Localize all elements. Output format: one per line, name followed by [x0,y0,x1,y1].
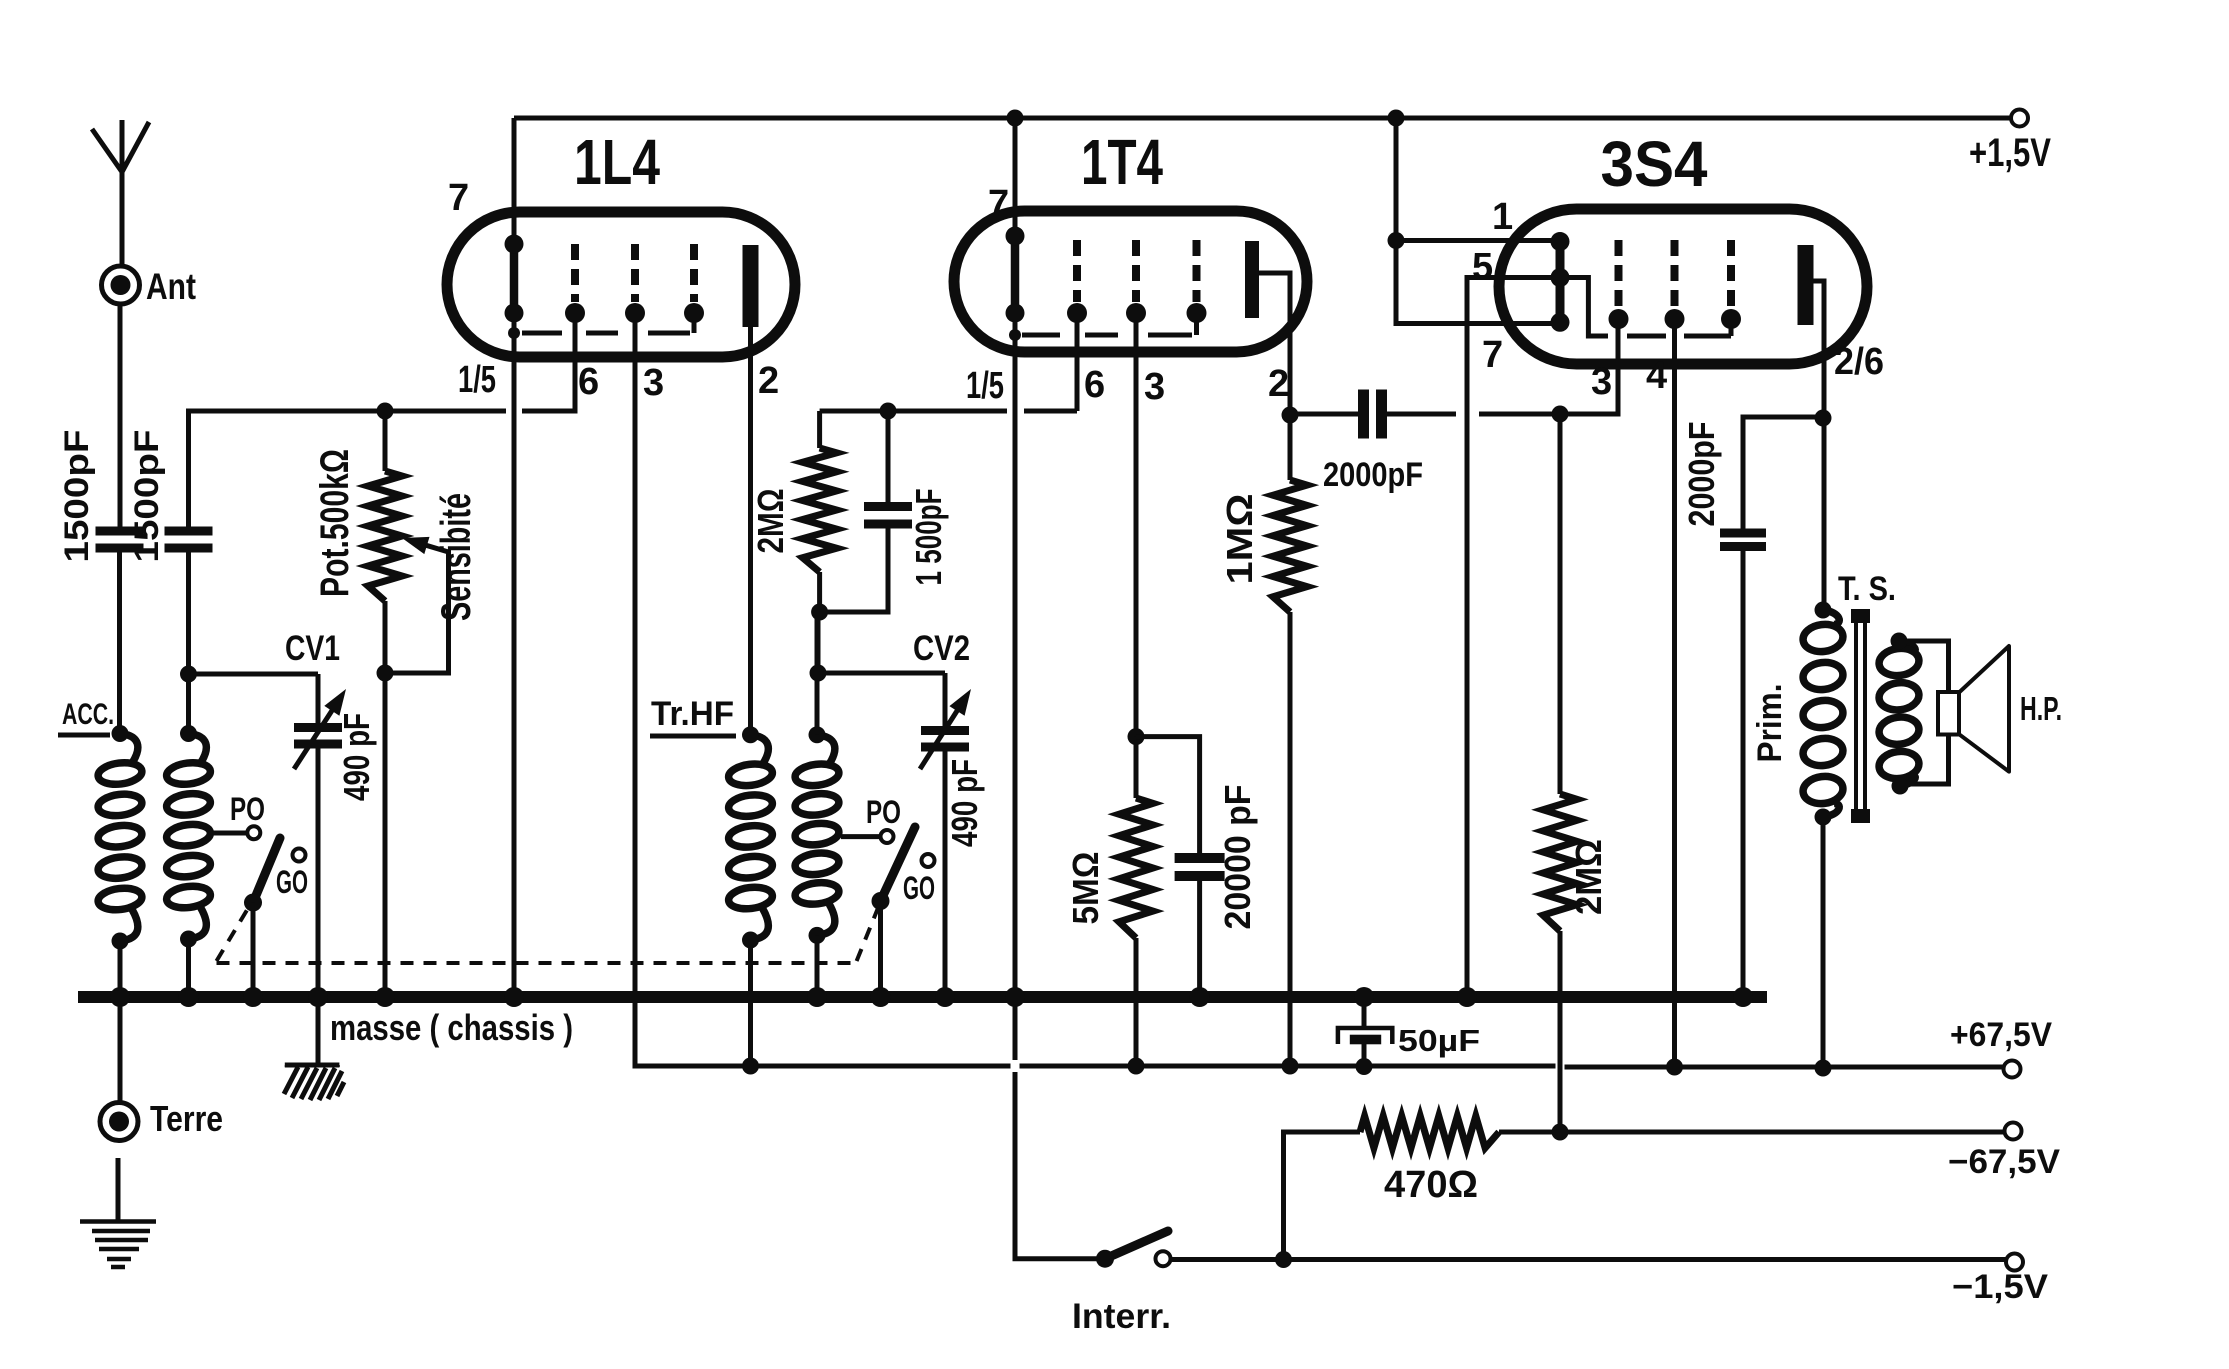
resistor 5MOhm [1119,737,1153,1066]
label CV1 [285,629,340,668]
svg-text:Interr.: Interr. [1072,1297,1171,1336]
node CV2 branch [810,665,827,682]
contact GO2 [922,854,935,867]
wire bus to Terre [118,997,123,1102]
svg-text:3: 3 [643,362,664,404]
label 1L4 [574,126,660,198]
terminal +1,5V [2011,110,2028,127]
svg-text:1T4: 1T4 [1081,126,1163,198]
wire C1 to ACC primary [117,552,122,733]
label pin 7 (1L4) [448,177,469,219]
wire GO1 pivot to bus [251,903,256,997]
svg-text:1 500pF: 1 500pF [908,489,949,586]
anode 1T4 [1245,241,1259,318]
inductor ACC secondary [165,734,211,940]
wire pot bottom to bus [383,673,388,997]
wire ACC secondary bottom to bus [186,939,191,997]
wire CV1 top [316,674,321,723]
terminal -1,5V [2006,1254,2023,1271]
wire 3S4 anode elbow [1814,281,1825,610]
label Interr. [1072,1297,1171,1336]
wire to CV1 [189,672,319,677]
label masse (chassis) [330,1007,573,1048]
node 1T4 anode junction [1282,407,1299,424]
node GO1 pivot [244,894,262,912]
svg-text:2000pF: 2000pF [1323,456,1423,494]
label CV1 490pF [336,713,377,801]
node top rail / 1T4 pin 7 [1007,110,1024,127]
node Tr.HF secondary bottom [809,927,826,944]
svg-text:2000pF: 2000pF [1681,422,1722,527]
label pin 7 (1T4) [988,183,1009,225]
wire 3S4 drop from rail [1396,118,1560,324]
capacitor 2000pF (output) [1720,529,1766,552]
label 2MOhm (3S4) [1568,839,1609,915]
capacitor 2000pF coupling [1358,390,1387,439]
inductor T.S. secondary [1878,641,1921,786]
capacitor CV2 490pF [921,726,969,752]
capacitor CV1 490pF [294,723,342,749]
wire 1T4 anode elbow [1259,273,1290,415]
svg-text:CV1: CV1 [285,629,340,668]
node bus junction x=880.5 [871,987,891,1007]
wire 1L4 anode to Tr.HF primary [748,327,753,734]
node ACC primary top [112,725,129,742]
label Tr.HF [650,695,736,736]
capacitor C1 1500pF [96,527,144,553]
node bus junction x=1467 [1457,987,1477,1007]
svg-text:CV2: CV2 [913,629,970,668]
wire 1T4 pin 1/5 down to Interr. [1015,313,1100,1259]
internal filament-grid3 link 1T4 [1009,313,1197,341]
capacitor C2 1500pF [165,527,213,553]
capacitor 20000pF [1175,853,1225,881]
filament 3S4 [1551,232,1570,332]
label PO2 [866,794,901,830]
grid 3 1T4 [1187,240,1207,323]
antenna [92,120,149,266]
svg-text:Sensibité: Sensibité [432,493,479,621]
wire secondary to speaker [1899,641,1949,784]
ganged switch dashed link [217,905,879,963]
node pot top [377,403,394,420]
node 1T4 pin3 / 20000pF junction [1128,728,1145,745]
wire T.S. primary bottom to +67,5V rail [1821,817,1826,1068]
node Interr. pivot [1096,1250,1114,1268]
resistor 1MOhm [1273,415,1307,1066]
svg-text:3: 3 [1144,366,1165,408]
switch lever Interr. [1105,1231,1168,1259]
node rail / 3S4 pin4 [1666,1059,1683,1076]
label 20000pF [1217,785,1258,930]
svg-text:6: 6 [1084,364,1105,406]
grid 3 1L4 [684,244,704,323]
inductor T.S. primary [1802,610,1845,817]
label ACC. [58,698,114,735]
wire 1L4 pin 1/5 to bus [512,313,517,997]
wire 20000pF to bus [1197,881,1202,997]
earth ground symbol [80,1222,156,1268]
resistor 470Ohm [1284,1116,1561,1260]
label C1 1500pF [58,430,96,563]
node rail / 5MOhm [1128,1058,1145,1075]
wire grid junction to 3S4 pin 3 [1560,319,1618,414]
label pin 6 (1T4) [1084,364,1105,406]
svg-text:1: 1 [1492,196,1513,238]
svg-text:Terre: Terre [150,1098,223,1139]
label PO [230,791,265,827]
node bus junction x=318 [308,987,328,1007]
label Pot.500kOhm [313,449,357,597]
label 1500pF (1T4 grid) [908,489,949,586]
label 2000pF coupling [1323,456,1423,494]
svg-text:490 pF: 490 pF [336,713,377,801]
node rail / Tr.HF primary [742,1058,759,1075]
svg-text:+1,5V: +1,5V [1969,131,2051,175]
wire +67,5V rail [742,1066,2004,1067]
label pin 3 (1L4) [643,362,664,404]
label pin 1/5 (1T4) [966,365,1004,407]
label pin 3 (3S4) [1591,361,1612,403]
arrow CV1 variable [294,689,346,769]
label pin 3 (1T4) [1144,366,1165,408]
node top rail / 3S4 drop [1388,110,1405,127]
node 3S4 grid junction [1552,406,1569,423]
svg-text:5MΩ: 5MΩ [1065,852,1106,925]
resistor 2MOhm (3S4 grid) [1543,414,1577,1132]
wire 1L4 pin 3 to +67,5V rail [635,313,742,1066]
label -67,5V [1948,1143,2060,1181]
wire GO2 pivot to bus [878,901,883,997]
svg-text:7: 7 [1482,334,1503,376]
wire 2M junction to CV2 branch [816,612,821,673]
inductor Tr.HF primary [727,735,773,940]
node bus junction x=1743 [1733,987,1753,1007]
node bus junction x=514 [504,987,524,1007]
svg-text:6: 6 [578,361,599,403]
inductor ACC primary [97,734,143,942]
svg-text:Ant: Ant [146,266,196,307]
wire wiper return [385,550,449,673]
node 470Ohm return [1275,1251,1292,1268]
contact PO [247,826,260,839]
tube V1 1L4 envelope [447,212,795,357]
svg-text:GO: GO [903,870,935,906]
wire CV2 bottom to bus [943,751,948,997]
svg-text:Prim.: Prim. [1751,684,1789,763]
node ACC primary bottom [112,933,129,950]
svg-text:3S4: 3S4 [1601,128,1708,200]
grid 1 (pin6) 1L4 [565,244,585,323]
node C2 line / CV1 branch [180,666,197,683]
grid 2 (pin3) 1T4 [1126,240,1146,323]
wire Tr.HF secondary top to 2M junction [815,612,820,735]
wire anode to 2000pF (output) [1743,417,1823,529]
svg-text:ACC.: ACC. [62,698,114,731]
label 1MOhm [1219,494,1260,585]
wire grid line to C2 (corner) [189,411,381,527]
node rail / 50uF [1356,1058,1373,1075]
wire junction to 20000pF [1136,737,1200,853]
node ACC secondary bottom [180,931,197,948]
grid 1 (pin3) 3S4 [1609,240,1629,329]
wire 1T4 pin 6 down [1075,313,1080,411]
grid 1 (pin6) 1T4 [1067,240,1087,323]
node T.S. primary top [1815,602,1832,619]
wire 1T4 pin 3 down [1134,313,1139,737]
svg-text:Tr.HF: Tr.HF [651,695,734,733]
wire ACC primary bottom to bus [118,941,123,997]
node GO2 pivot [872,892,890,910]
wire CV1 bottom to bus and chassis [316,748,321,1064]
node 470Ohm / -67,5V junction [1552,1124,1569,1141]
svg-text:2: 2 [1268,363,1289,405]
label +67,5V [1950,1016,2052,1054]
svg-text:+67,5V: +67,5V [1950,1016,2052,1054]
node bus junction x=120 [110,987,130,1007]
wire to CV2 [818,671,945,676]
wire 1L4 pin 6 down [380,313,575,411]
bus masse (chassis) [78,991,1767,1003]
node 3S4 pin1 branch [1388,232,1405,249]
speaker H.P. [1938,646,2009,772]
label pin 4 (3S4) [1646,355,1667,397]
svg-text:PO: PO [866,794,901,830]
label 50uF [1398,1023,1480,1058]
svg-text:1MΩ: 1MΩ [1219,494,1260,585]
node bus junction x=1015 [1005,987,1025,1007]
label Ant [146,266,196,307]
svg-text:7: 7 [988,183,1009,225]
label CV2 490pF [944,759,985,847]
label +1,5V [1969,131,2051,175]
node Tr.HF secondary top [809,726,826,743]
svg-text:2MΩ: 2MΩ [1568,839,1609,915]
wire Terre to earth [116,1158,121,1221]
node Tr.HF primary bottom [742,932,759,949]
wire 1L4 pin 7 from rail [512,118,517,244]
wire antenna to C1 [118,304,123,527]
wire +1,5V top rail [514,116,2011,121]
label pin 6 (1L4) [578,361,599,403]
label GO [276,864,308,900]
label H.P. [2020,690,2062,727]
svg-text:3: 3 [1591,361,1612,403]
wire C2 to ACC secondary [186,552,191,733]
label -1,5V [1952,1268,2048,1306]
wire -1,5V rail [1171,1257,2006,1262]
label pin 2/6 (3S4) [1834,341,1884,383]
label pin 5 (3S4) [1472,246,1493,288]
svg-text:masse ( chassis ): masse ( chassis ) [330,1007,573,1048]
capacitor 50uF electrolytic [1338,997,1392,1066]
label 3S4 [1601,128,1708,200]
arrow CV2 variable [920,689,971,769]
potentiometer wiper arrow [402,537,449,554]
svg-text:2: 2 [758,360,779,402]
svg-text:−1,5V: −1,5V [1952,1268,2048,1306]
wire 1T4 pin 7 from rail [1013,118,1018,236]
node rail / 1MOhm [1282,1058,1299,1075]
wire 3S4 pin 1 [1396,238,1560,243]
wire -67,5V rail [1560,1130,2004,1135]
svg-text:4: 4 [1646,355,1667,397]
node ACC secondary top [180,725,197,742]
node bus junction x=385 [375,987,395,1007]
svg-text:PO: PO [230,791,265,827]
label CV2 [913,629,970,668]
node bus junction x=253 [243,987,263,1007]
label pin 1/5 (1L4) [458,359,496,401]
label pin 2 (1L4) [758,360,779,402]
label 5MOhm [1065,852,1106,925]
transformer core T.S. [1851,609,1870,823]
node T.S. secondary bottom [1892,778,1909,795]
tube V2 1T4 envelope [954,211,1307,352]
contact PO2 [881,830,894,843]
capacitor 1500pF (1T4 grid) [820,411,912,612]
chassis ground symbol [284,1065,344,1100]
internal filament-grid3 link 3S4 [1560,278,1731,337]
terminal Terre [100,1103,138,1141]
grid 2 (pin4) 3S4 [1665,240,1685,329]
node bus junction x=1199.6 [1190,987,1210,1007]
label 2000pF (output) [1681,422,1722,527]
switch lever GO1 [253,838,280,903]
wire 2000pF (output) to bus [1741,551,1746,997]
svg-text:1500pF: 1500pF [128,430,166,563]
label pin 1 (3S4) [1492,196,1513,238]
resistor 2MOhm (1T4 grid leak) [803,411,837,612]
label 470Ohm [1384,1164,1478,1206]
svg-text:490 pF: 490 pF [944,759,985,847]
node 3S4 anode / 2000pF branch [1815,410,1832,427]
internal filament-grid3 link 1L4 [508,313,694,339]
svg-text:1/5: 1/5 [966,365,1004,407]
node Tr.HF primary top [742,726,759,743]
label C2 1500pF [128,430,166,563]
anode 3S4 [1798,245,1814,325]
wire tap to PO2 contact [841,834,880,839]
svg-text:Pot.500kΩ: Pot.500kΩ [313,449,357,597]
svg-text:2MΩ: 2MΩ [750,489,791,554]
wire CV2 top [943,673,948,726]
tube V3 3S4 envelope [1499,209,1867,364]
node bus junction x=817 [807,987,827,1007]
node bus junction x=188.5 [179,987,199,1007]
wire tap to PO contact [209,831,247,836]
label pin 2 (1T4) [1268,363,1289,405]
svg-text:2/6: 2/6 [1834,341,1884,383]
svg-text:1/5: 1/5 [458,359,496,401]
wire 3S4 pin 4 to +67,5V rail [1672,319,1677,1067]
svg-text:GO: GO [276,864,308,900]
label GO2 [903,870,935,906]
svg-text:50µF: 50µF [1398,1023,1480,1058]
label pin 7 (3S4) [1482,334,1503,376]
node pot bottom [377,665,394,682]
svg-text:−67,5V: −67,5V [1948,1143,2060,1181]
svg-text:1500pF: 1500pF [58,430,96,563]
node 2M bottom junction [811,604,828,621]
label Prim. [1751,684,1789,763]
grid 2 (pin3) 1L4 [625,244,645,323]
node T.S. primary bottom [1815,809,1832,826]
wire Tr.HF primary bottom to +67,5V rail [748,940,753,1066]
filament 1L4 [505,235,524,323]
svg-text:5: 5 [1472,246,1493,288]
anode 1L4 [743,245,759,327]
filament 1T4 [1006,227,1025,323]
node bus junction x=1364 [1354,987,1374,1007]
svg-text:H.P.: H.P. [2020,690,2062,727]
svg-text:470Ω: 470Ω [1384,1164,1478,1206]
label 1T4 [1081,126,1163,198]
terminal +67,5V [2004,1061,2021,1078]
wire 1T4 grid row [820,409,1077,414]
wire 2000pF to 3S4 grid [1387,412,1560,417]
wire anode to 2000pF [1290,412,1358,417]
svg-text:1L4: 1L4 [574,126,660,198]
label Terre [150,1098,223,1139]
contact GO [293,849,306,862]
label Sensibite [432,493,479,621]
node bus junction x=945 [935,987,955,1007]
svg-text:7: 7 [448,177,469,219]
terminal Ant [102,266,140,304]
node 1500pF top [880,403,897,420]
label T.S. [1838,570,1896,608]
contact Interr. [1156,1251,1171,1266]
svg-text:T. S.: T. S. [1838,570,1896,608]
switch lever GO2 [881,827,916,901]
inductor Tr.HF secondary [794,735,840,936]
grid 3 3S4 [1721,240,1741,329]
terminal -67,5V [2005,1123,2022,1140]
wire Tr.HF secondary bottom to bus [815,935,820,997]
node rail / T.S. primary [1815,1060,1832,1077]
resistor Pot.500kOhm [368,411,402,673]
label 2MOhm [750,489,791,554]
svg-text:20000 pF: 20000 pF [1217,785,1258,930]
node T.S. secondary top [1891,633,1908,650]
wire 3S4 pin 5 to bus [1467,278,1560,998]
